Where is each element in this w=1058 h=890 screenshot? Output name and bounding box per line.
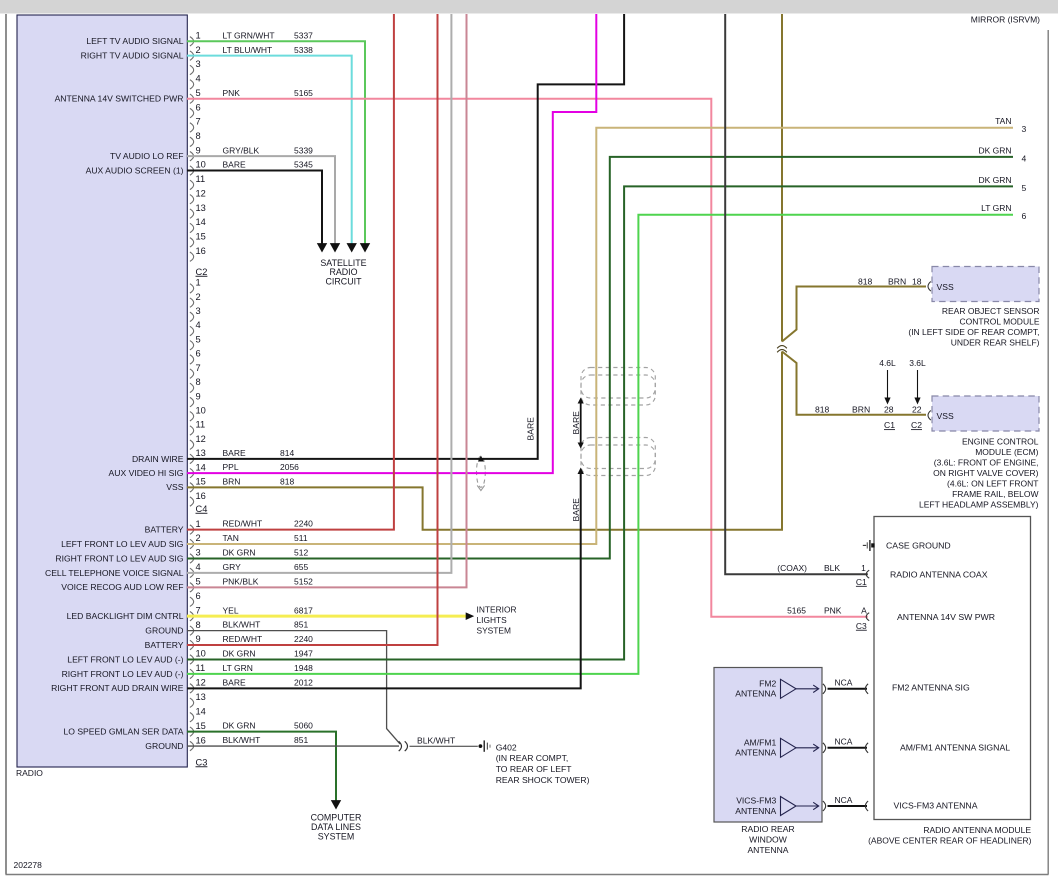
wire BRN 818 branch to rear object sensor [782,287,926,342]
svg-text:LT GRN/WHT: LT GRN/WHT [223,30,275,40]
svg-text:ANTENNA: ANTENNA [735,748,776,758]
svg-text:PNK: PNK [824,605,842,615]
wire YEL 6817 (C4-7 to interior lights system) [187,615,466,618]
svg-text:CELL TELEPHONE VOICE SIGNAL: CELL TELEPHONE VOICE SIGNAL [45,568,184,578]
svg-text:BLK/WHT: BLK/WHT [417,735,456,745]
svg-text:BARE: BARE [526,417,536,441]
svg-text:BLK/WHT: BLK/WHT [223,735,261,745]
svg-text:TAN: TAN [223,533,239,543]
radio connector C4 pin 13 terminal [190,698,194,707]
svg-text:(3.6L: FRONT OF ENGINE,: (3.6L: FRONT OF ENGINE, [934,457,1039,467]
radio connector C4 pin 11 terminal [190,669,194,678]
radio connector C4 pin 2 terminal [190,539,194,548]
radio connector C1 pin 5 terminal [190,94,194,103]
svg-text:5152: 5152 [294,576,313,586]
svg-text:5339: 5339 [294,145,313,155]
svg-text:AM/FM1: AM/FM1 [744,737,777,747]
radio connector C4 pin 4 terminal [190,568,194,577]
svg-text:2012: 2012 [294,677,313,687]
radio connector C2 pin 8 terminal [190,383,194,392]
svg-text:DK GRN: DK GRN [978,175,1011,185]
wire LT GRN/WHT 5337 (C1-1 to satellite radio circuit) [187,41,365,243]
svg-text:202278: 202278 [14,860,43,870]
svg-text:16: 16 [196,246,206,256]
radio connector C1 pin 3 terminal [190,65,194,74]
small twisted pair arrow and tail on BARE/PPL pair [478,456,484,462]
svg-text:1948: 1948 [294,663,313,673]
svg-text:13: 13 [196,203,206,213]
svg-text:RADIO REAR: RADIO REAR [741,824,794,834]
radio connector C2 pin 15 terminal [190,483,194,492]
shield arrowhead up (BARE 2012) [578,468,584,475]
svg-text:BRN: BRN [888,276,906,286]
svg-text:LT GRN: LT GRN [981,203,1011,213]
wire DK GRN 1947 (C4-10 to mirror pin 5) [187,186,1013,659]
svg-text:6: 6 [196,591,201,601]
svg-text:ANTENNA: ANTENNA [735,689,776,699]
radio connector C4 pin 6 terminal [190,597,194,606]
svg-text:6: 6 [196,102,201,112]
svg-text:814: 814 [280,448,294,458]
svg-text:8: 8 [196,620,201,630]
svg-text:AUX VIDEO HI SIG: AUX VIDEO HI SIG [109,468,184,478]
svg-text:3: 3 [196,306,201,316]
svg-text:(IN REAR COMPT,: (IN REAR COMPT, [496,753,569,763]
svg-text:7: 7 [196,117,201,127]
svg-text:C3: C3 [196,757,208,767]
radio connector C2 pin 16 terminal [190,497,194,506]
radio connector C4 pin 10 terminal [190,655,194,664]
svg-text:6: 6 [1022,211,1027,221]
svg-text:2: 2 [196,292,201,302]
radio connector C1 pin 4 terminal [190,80,194,89]
svg-text:NCA: NCA [835,737,853,747]
svg-text:VICS-FM3 ANTENNA: VICS-FM3 ANTENNA [894,800,978,810]
svg-text:RADIO ANTENNA MODULE: RADIO ANTENNA MODULE [923,825,1031,835]
svg-text:818: 818 [815,405,830,415]
radio connector C2 pin 10 terminal [190,412,194,421]
page left border [5,14,7,875]
svg-text:7: 7 [196,605,201,615]
radio connector C2 pin 9 terminal [190,397,194,406]
rear object sensor connector arc [928,282,931,292]
case ground symbol [863,544,866,546]
svg-text:1: 1 [196,31,201,41]
ground G402 symbol [479,744,483,748]
svg-text:RIGHT FRONT LO LEV AUD SIG: RIGHT FRONT LO LEV AUD SIG [55,553,183,563]
wire LT GRN 1948 (C4-11 to mirror pin 6) [187,215,1013,674]
svg-text:12: 12 [196,434,206,444]
svg-text:TO REAR OF LEFT: TO REAR OF LEFT [496,764,573,774]
svg-text:11: 11 [196,174,206,184]
ECM connector arc [928,411,931,421]
svg-text:15: 15 [196,721,206,731]
svg-text:C3: C3 [856,621,867,631]
wire GRY 655 (C4-4 to top) [187,14,451,573]
radio connector C1 pin 7 terminal [190,123,194,132]
svg-text:13: 13 [196,692,206,702]
svg-text:BATTERY: BATTERY [145,525,184,535]
svg-text:C2: C2 [196,267,208,277]
radio connector C2 pin 3 terminal [190,312,194,321]
svg-text:WINDOW: WINDOW [749,835,788,845]
svg-text:3: 3 [1022,124,1027,134]
svg-text:2: 2 [196,533,201,543]
svg-text:MODULE (ECM): MODULE (ECM) [975,447,1038,457]
radio connector C1 pin 14 terminal [190,223,194,232]
svg-text:2240: 2240 [294,634,313,644]
rear object sensor control module VSS box [932,267,1039,302]
arrow to satellite radio circuit (LT GRN/WHT) [360,243,370,252]
svg-text:14: 14 [196,706,206,716]
svg-text:512: 512 [294,548,308,558]
svg-text:C1: C1 [856,577,867,587]
svg-text:RIGHT FRONT LO LEV AUD (-): RIGHT FRONT LO LEV AUD (-) [62,669,184,679]
svg-text:CIRCUIT: CIRCUIT [326,277,363,287]
svg-text:FM2 ANTENNA SIG: FM2 ANTENNA SIG [892,682,970,692]
svg-text:GRY: GRY [223,562,242,572]
svg-text:DATA LINES: DATA LINES [311,822,361,832]
svg-text:REAR OBJECT SENSOR: REAR OBJECT SENSOR [942,306,1040,316]
svg-text:28: 28 [884,405,894,415]
svg-text:3: 3 [196,59,201,69]
svg-text:6817: 6817 [294,605,313,615]
radio connector C4 pin 9 terminal [190,640,194,649]
svg-text:818: 818 [858,276,873,286]
wire BARE 5345 (C1-10 shield to satellite radio circuit) [187,171,322,244]
svg-text:TV AUDIO LO REF: TV AUDIO LO REF [110,151,184,161]
svg-text:BRN: BRN [852,405,870,415]
radio connector C2 pin 6 terminal [190,355,194,364]
svg-text:3.6L: 3.6L [909,358,926,368]
svg-text:BRN: BRN [223,476,241,486]
wire LT BLU/WHT 5338 (C1-2 to satellite radio circuit) [187,56,352,244]
svg-text:(IN LEFT SIDE OF REAR COMPT,: (IN LEFT SIDE OF REAR COMPT, [908,327,1039,337]
arrow to computer data lines system [331,800,341,809]
wire BRN 818 VSS (C2-15 to splice) [187,352,782,530]
wire PNK/BLK 5152 (C4-5 to top) [187,14,467,587]
arrow to satellite radio circuit (GRY/BLK) [330,243,340,252]
svg-text:(4.6L: ON LEFT FRONT: (4.6L: ON LEFT FRONT [947,478,1038,488]
radio connector C4 pin 7 terminal [190,611,194,620]
svg-text:11: 11 [196,663,206,673]
svg-text:1: 1 [861,563,866,573]
svg-text:FRAME RAIL, BELOW: FRAME RAIL, BELOW [952,489,1038,499]
svg-text:5165: 5165 [787,605,806,615]
svg-text:REAR SHOCK TOWER): REAR SHOCK TOWER) [496,775,590,785]
svg-text:GRY/BLK: GRY/BLK [223,145,260,155]
svg-text:RED/WHT: RED/WHT [223,634,263,644]
svg-text:LEFT HEADLAMP ASSEMBLY): LEFT HEADLAMP ASSEMBLY) [919,499,1039,509]
svg-text:VSS: VSS [937,282,954,292]
wire TAN 511 (C4-2 to mirror pin 3) [187,128,1013,544]
radio connector C1 pin 12 terminal [190,195,194,204]
radio connector C4 pin 5 terminal [190,583,194,592]
svg-text:VICS-FM3: VICS-FM3 [736,796,776,806]
radio connector C4 pin 14 terminal [190,712,194,721]
wire BARE 814 drain (C2-13 to mirror) [187,14,624,459]
svg-text:4.6L: 4.6L [879,358,896,368]
radio connector C4 pin 8 terminal [190,626,194,635]
svg-text:DK GRN: DK GRN [223,721,256,731]
radio connector C4 pin 15 terminal [190,727,194,736]
radio connector C1 pin 11 terminal [190,180,194,189]
svg-text:AM/FM1 ANTENNA SIGNAL: AM/FM1 ANTENNA SIGNAL [900,742,1010,752]
wire BRN 818 branch to ECM [782,352,926,415]
svg-text:ANTENNA 14V SWITCHED PWR: ANTENNA 14V SWITCHED PWR [55,94,184,104]
svg-text:NCA: NCA [835,795,853,805]
svg-text:2: 2 [196,45,201,55]
svg-text:9: 9 [196,391,201,401]
svg-text:A: A [861,605,867,615]
svg-text:RADIO ANTENNA COAX: RADIO ANTENNA COAX [890,569,988,579]
radio connector C2 pin 7 terminal [190,369,194,378]
svg-text:LED BACKLIGHT DIM CNTRL: LED BACKLIGHT DIM CNTRL [67,611,184,621]
radio connector C4 pin 3 terminal [190,554,194,563]
svg-text:LT BLU/WHT: LT BLU/WHT [223,45,273,55]
wire BRN 818 splice upper branch to mirror [781,14,783,342]
radio connector C2 pin 5 terminal [190,341,194,350]
radio connector C4 pin 12 terminal [190,684,194,693]
svg-text:ON RIGHT VALVE COVER): ON RIGHT VALVE COVER) [933,468,1038,478]
svg-text:BARE: BARE [223,160,246,170]
shield drain link wire BARE between groups [580,402,582,444]
twisted pair shield symbol upper group [581,368,655,399]
svg-text:2056: 2056 [280,462,299,472]
svg-text:TAN: TAN [995,116,1011,126]
svg-text:16: 16 [196,491,206,501]
wire PNK 5165 (C1-5 to radio antenna module A/C3) [187,99,868,617]
splice break symbol on BRN 818 [779,343,786,350]
svg-text:4: 4 [1022,153,1027,163]
svg-text:RED/WHT: RED/WHT [223,519,263,529]
svg-text:6: 6 [196,349,201,359]
radio connector C1 pin 10 terminal [190,166,194,175]
svg-text:3: 3 [196,548,201,558]
svg-text:ANTENNA 14V SW PWR: ANTENNA 14V SW PWR [897,612,995,622]
svg-text:DK GRN: DK GRN [978,145,1011,155]
radio connector C1 pin 15 terminal [190,238,194,247]
wire DK GRN 5060 serial data (C4-15 to computer data lines) [187,732,336,801]
radio U1 component box [17,15,187,767]
svg-text:RIGHT TV AUDIO SIGNAL: RIGHT TV AUDIO SIGNAL [81,51,184,61]
radio connector C4 pin 1 terminal [190,525,194,534]
svg-text:18: 18 [912,276,922,286]
radio connector C2 pin 1 terminal [190,284,194,293]
radio connector C1 pin 1 terminal [190,37,194,46]
svg-text:C2: C2 [911,420,922,430]
wire BLK/WHT to G402 ground [410,745,478,747]
wire BLK/WHT 851 ground (C4-16 to break) [187,745,399,747]
arrow to interior lights system [466,612,475,620]
svg-text:5060: 5060 [294,721,313,731]
svg-text:DK GRN: DK GRN [223,649,256,659]
svg-text:1: 1 [196,519,201,529]
svg-text:9: 9 [196,145,201,155]
wire BLK/WHT 851 ground (C4-8 down to splice) [187,631,400,744]
svg-text:BARE: BARE [223,448,246,458]
svg-text:9: 9 [196,634,201,644]
radio connector C1 pin 2 terminal [190,51,194,60]
svg-text:4: 4 [196,320,201,330]
svg-text:G402: G402 [496,743,517,753]
radio connector C2 pin 4 terminal [190,326,194,335]
radio connector C2 pin 12 terminal [190,440,194,449]
svg-text:8: 8 [196,377,201,387]
svg-text:BLK: BLK [824,563,840,573]
radio connector C4 pin 16 terminal [190,741,194,750]
svg-text:BLK/WHT: BLK/WHT [223,620,261,630]
engine control module VSS box [932,396,1039,431]
radio connector C2 pin 13 terminal [190,454,194,463]
svg-text:ANTENNA: ANTENNA [747,845,788,855]
svg-text:13: 13 [196,448,206,458]
svg-text:(ABOVE CENTER REAR OF HEADLINE: (ABOVE CENTER REAR OF HEADLINER) [868,836,1032,846]
svg-text:C1: C1 [884,420,895,430]
small twisted pair symbol on BARE/PPL pair [477,456,486,487]
radio connector C1 pin 16 terminal [190,252,194,261]
wire BLK coax (mirror to radio antenna module 1/C1) [725,14,868,574]
wire RED/WHT 2240 battery (C4-9 to top) [187,14,438,645]
page bottom border [6,874,1049,876]
svg-text:5: 5 [196,577,201,587]
svg-text:10: 10 [196,160,206,170]
svg-text:YEL: YEL [223,605,239,615]
radio connector C2 pin 2 terminal [190,298,194,307]
svg-text:LEFT FRONT LO LEV AUD SIG: LEFT FRONT LO LEV AUD SIG [61,539,184,549]
svg-text:14: 14 [196,217,206,227]
svg-text:851: 851 [294,735,308,745]
wire GRY/BLK 5339 (C1-9 to satellite radio circuit) [187,156,335,243]
svg-text:BARE: BARE [571,411,581,435]
radio connector C2 pin 14 terminal [190,468,194,477]
svg-text:5: 5 [196,334,201,344]
radio connector C2 pin 11 terminal [190,426,194,435]
svg-text:12: 12 [196,678,206,688]
svg-text:5345: 5345 [294,160,313,170]
svg-text:VSS: VSS [166,482,183,492]
svg-text:C4: C4 [196,504,208,514]
svg-text:UNDER REAR SHELF): UNDER REAR SHELF) [951,338,1040,348]
svg-text:SYSTEM: SYSTEM [477,625,511,635]
svg-text:10: 10 [196,649,206,659]
radio connector C1 pin 9 terminal [190,151,194,160]
svg-text:LEFT TV AUDIO SIGNAL: LEFT TV AUDIO SIGNAL [86,36,183,46]
svg-text:655: 655 [294,562,308,572]
svg-text:CONTROL MODULE: CONTROL MODULE [960,317,1040,327]
radio antenna module box [874,517,1031,820]
svg-text:511: 511 [294,533,308,543]
wire RED/WHT 2240 battery (C4-1 to top) [187,14,394,530]
svg-text:CASE GROUND: CASE GROUND [886,541,951,551]
svg-text:818: 818 [280,476,294,486]
radio connector C1 pin 8 terminal [190,137,194,146]
svg-text:LT GRN: LT GRN [223,663,253,673]
svg-text:AUX AUDIO SCREEN (1): AUX AUDIO SCREEN (1) [86,165,184,175]
svg-text:LEFT FRONT LO LEV AUD (-): LEFT FRONT LO LEV AUD (-) [67,654,183,664]
mirror (ISRVM) boundary right edge [1047,30,1049,875]
svg-text:BARE: BARE [571,498,581,522]
svg-text:RIGHT FRONT AUD DRAIN WIRE: RIGHT FRONT AUD DRAIN WIRE [51,683,184,693]
svg-text:1: 1 [196,278,201,288]
svg-text:12: 12 [196,188,206,198]
svg-text:PNK/BLK: PNK/BLK [223,576,259,586]
svg-text:(COAX): (COAX) [777,563,807,573]
svg-text:PPL: PPL [223,462,239,472]
svg-text:ANTENNA: ANTENNA [735,806,776,816]
svg-text:7: 7 [196,363,201,373]
svg-text:14: 14 [196,462,206,472]
svg-text:5338: 5338 [294,45,313,55]
arrow to satellite radio circuit (LT BLU/WHT) [347,243,357,252]
svg-text:NCA: NCA [835,678,853,688]
svg-text:8: 8 [196,131,201,141]
svg-text:10: 10 [196,405,206,415]
svg-text:GROUND: GROUND [145,741,183,751]
radio rear window antenna box [714,668,822,823]
wire DK GRN 512 (C4-3 to mirror pin 4) [187,157,1013,559]
svg-text:GROUND: GROUND [145,626,183,636]
wire BARE 2012 drain (C4-12 to twisted pair shield) [187,471,581,688]
svg-text:5: 5 [196,88,201,98]
svg-text:FM2: FM2 [759,678,776,688]
radio connector C1 pin 13 terminal [190,209,194,218]
svg-text:16: 16 [196,735,206,745]
svg-text:11: 11 [196,420,206,430]
svg-text:DK GRN: DK GRN [223,548,256,558]
svg-text:15: 15 [196,232,206,242]
svg-text:1947: 1947 [294,649,313,659]
svg-text:5165: 5165 [294,88,313,98]
svg-text:BARE: BARE [223,677,246,687]
svg-text:ENGINE CONTROL: ENGINE CONTROL [962,436,1039,446]
twisted pair shield symbol lower group [581,438,655,469]
svg-text:VOICE RECOG AUD LOW REF: VOICE RECOG AUD LOW REF [61,582,183,592]
svg-text:4: 4 [196,74,201,84]
svg-text:5: 5 [1022,183,1027,193]
svg-text:2240: 2240 [294,519,313,529]
wire PPL 2056 aux video (C2-14 to mirror) [187,14,596,473]
svg-text:BATTERY: BATTERY [145,640,184,650]
svg-text:PNK: PNK [223,88,241,98]
svg-text:15: 15 [196,477,206,487]
svg-text:4: 4 [196,562,201,572]
svg-text:INTERIOR: INTERIOR [477,604,517,614]
svg-text:VSS: VSS [937,411,954,421]
svg-text:5337: 5337 [294,30,313,40]
svg-text:MIRROR (ISRVM): MIRROR (ISRVM) [971,15,1040,25]
top gray bar [0,0,1058,14]
arrow to satellite radio circuit (BARE) [317,243,327,252]
radio connector C1 pin 6 terminal [190,108,194,117]
module connector arc C3 [866,613,869,621]
svg-text:DRAIN WIRE: DRAIN WIRE [132,454,184,464]
svg-text:22: 22 [912,405,922,415]
svg-text:RADIO: RADIO [16,768,43,778]
svg-text:COMPUTER: COMPUTER [311,812,362,822]
svg-text:SYSTEM: SYSTEM [318,831,355,841]
inline connector break symbol )) [399,741,402,751]
module connector arc C1 [866,570,869,578]
svg-text:851: 851 [294,620,308,630]
svg-text:LO SPEED GMLAN SER DATA: LO SPEED GMLAN SER DATA [63,727,183,737]
svg-text:LIGHTS: LIGHTS [477,615,508,625]
